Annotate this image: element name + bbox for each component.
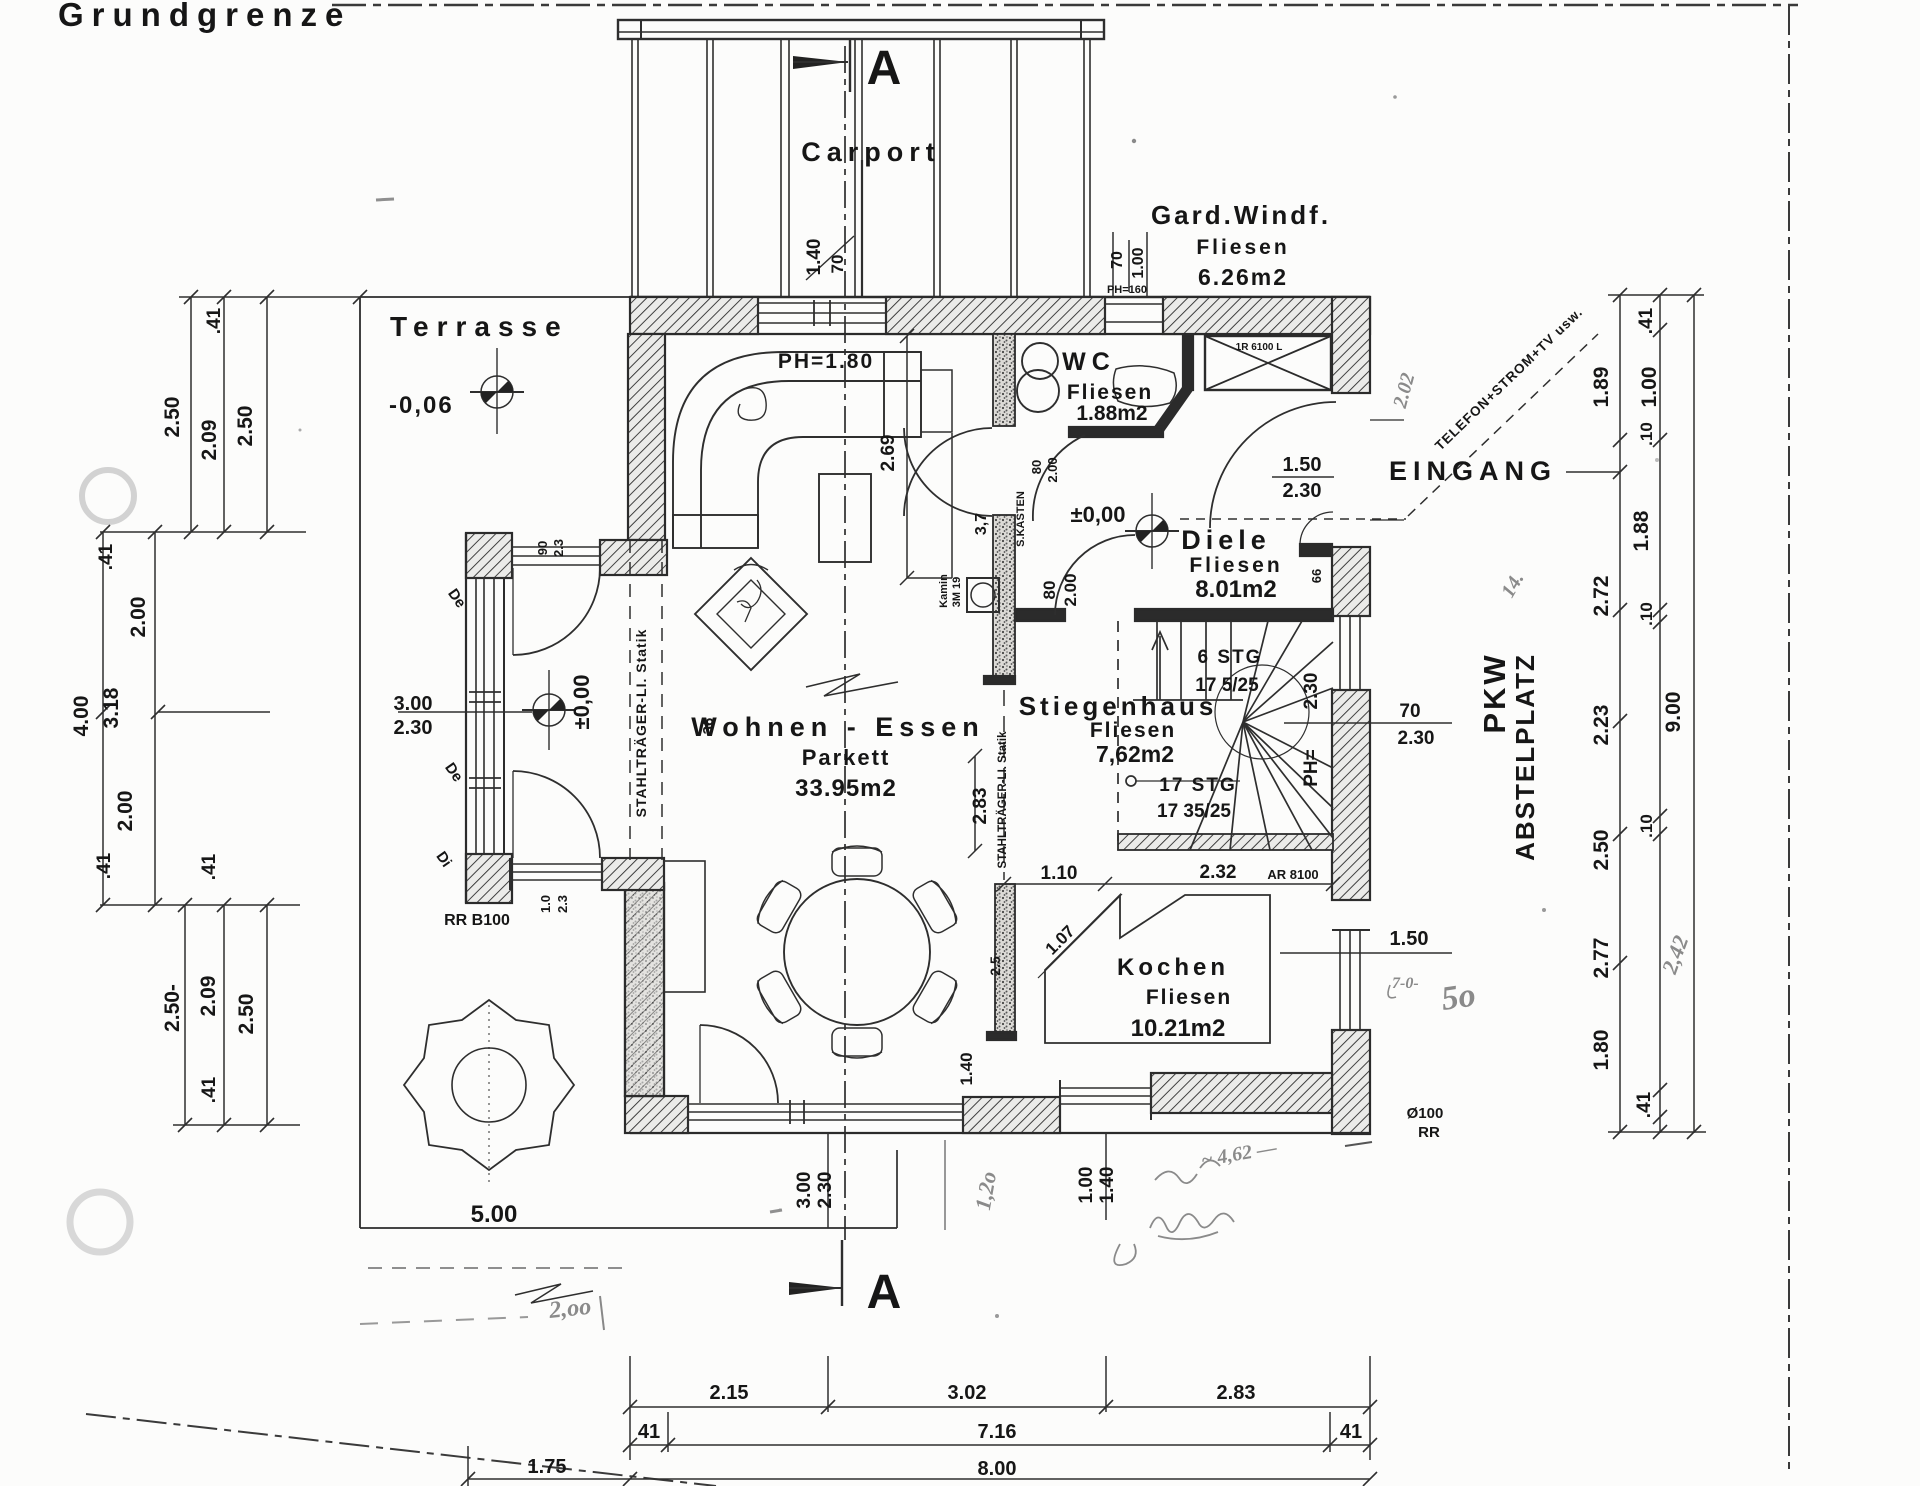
svg-text:17 35/25: 17 35/25 bbox=[1157, 801, 1231, 822]
bottom dim row2 line bbox=[630, 1444, 1370, 1446]
right chain top line bbox=[1608, 294, 1704, 296]
svg-text:1.00: 1.00 bbox=[1076, 1167, 1097, 1204]
left chain bottom line bbox=[173, 1124, 300, 1126]
top wall inner face bbox=[630, 333, 1370, 335]
svg-text:2.50: 2.50 bbox=[161, 397, 184, 438]
svg-text:STAHLTRÄGER-LI. Statik: STAHLTRÄGER-LI. Statik bbox=[633, 629, 649, 818]
level marker terrace bbox=[470, 348, 524, 434]
diele south wall west part bbox=[1015, 609, 1065, 621]
WC chamfer wall bbox=[1157, 388, 1188, 432]
wardrobe closet with X bbox=[1205, 336, 1331, 390]
svg-text:Grundgrenze: Grundgrenze bbox=[58, 0, 351, 33]
svg-text:41: 41 bbox=[1340, 1421, 1362, 1443]
bottom wall mid block bbox=[963, 1097, 1060, 1133]
STAIRS bbox=[1118, 621, 1333, 850]
WC door swing bbox=[1033, 435, 1085, 521]
section arrow top bbox=[793, 56, 848, 69]
bottom dim row1 line bbox=[630, 1406, 1370, 1408]
svg-text:1.00: 1.00 bbox=[1130, 247, 1147, 278]
WC toilet bbox=[1022, 343, 1058, 379]
DIMCHAINS bbox=[96, 232, 1706, 1486]
interior dim 2.69 bbox=[906, 336, 908, 578]
svg-text:3.00: 3.00 bbox=[794, 1172, 815, 1209]
left chain line y905 bbox=[100, 904, 300, 906]
bottom-left dim bracket 3.00/2.30 bbox=[827, 1133, 829, 1228]
svg-text:70: 70 bbox=[1399, 701, 1420, 722]
right chain bottom line bbox=[1608, 1131, 1706, 1133]
corner sofa seat front bbox=[758, 437, 921, 548]
WC south wall bbox=[1069, 427, 1163, 437]
right wall segment kitchen-south bbox=[1332, 1030, 1370, 1134]
level marker bay bbox=[522, 670, 576, 750]
svg-text:1.80: 1.80 bbox=[1590, 1030, 1613, 1071]
bay top terrace door swing bbox=[513, 568, 600, 655]
bay top wall right part bbox=[600, 540, 667, 575]
left chain top line bbox=[179, 296, 360, 298]
carport post 4 bbox=[854, 39, 856, 297]
left wall upper bbox=[628, 334, 665, 540]
terrace outline left bbox=[359, 297, 361, 1228]
svg-text:2.30: 2.30 bbox=[394, 717, 433, 739]
svg-text:Wohnen - Essen: Wohnen - Essen bbox=[691, 712, 985, 742]
octagon centre dotted line bbox=[488, 1005, 490, 1182]
svg-text:±0,00: ±0,00 bbox=[1071, 502, 1126, 527]
svg-text:1.89: 1.89 bbox=[1590, 367, 1613, 408]
svg-text:.10: .10 bbox=[1637, 814, 1656, 838]
svg-text:.41: .41 bbox=[199, 1076, 220, 1103]
diele south wall east part bbox=[1135, 609, 1333, 621]
svg-text:17 STG: 17 STG bbox=[1159, 775, 1236, 796]
svg-text:2.30: 2.30 bbox=[815, 1172, 836, 1209]
sofa cushion curl bbox=[738, 388, 766, 420]
interior wall living/diele lower bbox=[993, 515, 1015, 684]
svg-text:7-0-: 7-0- bbox=[1392, 975, 1419, 992]
svg-text:PH=: PH= bbox=[1301, 749, 1322, 787]
svg-text:2.83: 2.83 bbox=[970, 788, 991, 825]
FURNITURE bbox=[404, 343, 1270, 1303]
ARTIFACTS bbox=[70, 95, 1659, 1318]
svg-text:2.00: 2.00 bbox=[114, 791, 137, 832]
right chain verticals bbox=[1619, 295, 1621, 1133]
kitchen wall end cap bbox=[987, 1032, 1016, 1040]
svg-text:1.10: 1.10 bbox=[1041, 863, 1078, 884]
octagon tree terrace bbox=[404, 1000, 574, 1170]
svg-text:2.00: 2.00 bbox=[127, 597, 150, 638]
svg-text:2.77: 2.77 bbox=[1590, 938, 1613, 979]
carport centre dim strike bbox=[806, 236, 854, 280]
svg-text:1.50: 1.50 bbox=[1283, 454, 1322, 476]
diele east wall stub bbox=[1300, 544, 1332, 556]
octagon inner circle bbox=[452, 1048, 526, 1122]
entrance threshold bbox=[1370, 419, 1404, 421]
svg-text:2.50: 2.50 bbox=[235, 994, 258, 1035]
svg-text:1.00: 1.00 bbox=[1638, 367, 1661, 408]
svg-text:STAHLTRÄGER-LI. Statik: STAHLTRÄGER-LI. Statik bbox=[996, 731, 1009, 869]
svg-text:2.30: 2.30 bbox=[1301, 673, 1322, 710]
chair south-west bbox=[753, 968, 804, 1026]
sofa side table bbox=[921, 370, 952, 432]
WINDOWS bbox=[466, 297, 1370, 1133]
svg-text:Fliesen: Fliesen bbox=[1196, 236, 1289, 259]
stair bottom dim line 1.10 2.32 bbox=[1004, 883, 1333, 885]
carport top beam bbox=[618, 20, 1104, 39]
section line A-A bbox=[844, 46, 846, 1240]
svg-text:2.50-: 2.50- bbox=[161, 984, 184, 1032]
kitchen corner dim line 1.07 bbox=[1038, 894, 1122, 978]
svg-text:A: A bbox=[867, 1266, 902, 1319]
svg-text:WC: WC bbox=[1062, 348, 1116, 376]
ROTTEXTS bbox=[70, 239, 1685, 1209]
carport post 7 bbox=[1083, 39, 1085, 297]
carport post 3 bbox=[780, 39, 782, 297]
left wall lower bbox=[625, 883, 664, 1096]
kitchen bottom wall bbox=[1151, 1073, 1332, 1113]
bay top door leaf lines bbox=[512, 546, 600, 548]
svg-text:Fliesen: Fliesen bbox=[1090, 719, 1176, 742]
svg-text:9.00: 9.00 bbox=[1662, 692, 1685, 733]
stair walk line start circle bbox=[1126, 776, 1136, 786]
svg-text:1.88m2: 1.88m2 bbox=[1076, 402, 1147, 425]
kamin circle bbox=[971, 583, 995, 607]
svg-text:2.83: 2.83 bbox=[1217, 1382, 1256, 1404]
stair winders lower fan bbox=[1243, 722, 1333, 768]
svg-text:2.30: 2.30 bbox=[1283, 480, 1322, 502]
handwritten dim extension bbox=[944, 1140, 946, 1230]
svg-text:±0,00: ±0,00 bbox=[569, 675, 594, 730]
bottom dim extension 1.00/1.40 bbox=[1105, 1133, 1107, 1220]
svg-text:Parkett: Parkett bbox=[802, 745, 891, 770]
diele walkway dashes bbox=[1180, 518, 1406, 520]
svg-text:2.3: 2.3 bbox=[555, 895, 570, 913]
svg-text:-0,06: -0,06 bbox=[389, 392, 454, 419]
property line bottom-left diagonal bbox=[86, 1414, 716, 1486]
entrance dim 1.50/2.30 underline bbox=[1272, 476, 1334, 478]
svg-text:1.0: 1.0 bbox=[538, 895, 553, 913]
right wall segment entrance-north bbox=[1332, 297, 1370, 393]
left chain block C verticals bbox=[184, 905, 186, 1125]
svg-text:70: 70 bbox=[828, 255, 847, 274]
entrance jamb north bbox=[1332, 392, 1370, 394]
kitchen counter outline bbox=[1045, 895, 1270, 1043]
svg-text:PH=160: PH=160 bbox=[1107, 284, 1147, 296]
svg-text:Gard.Windf.: Gard.Windf. bbox=[1151, 200, 1331, 230]
handwriting squiggle near kitchen right bbox=[1388, 985, 1396, 998]
property line right bbox=[1788, 5, 1790, 1470]
property line top (Grundgrenze) bbox=[332, 4, 1798, 6]
svg-text:41: 41 bbox=[638, 1421, 660, 1443]
speckles bbox=[376, 199, 394, 200]
svg-text:PH=1.80: PH=1.80 bbox=[778, 350, 874, 373]
terrace bottom dashed line bbox=[368, 1267, 632, 1269]
svg-text:1.40: 1.40 bbox=[957, 1052, 976, 1085]
terrace outline bottom bbox=[360, 1227, 897, 1229]
interior dim 2.83 bbox=[974, 756, 976, 851]
stiegenhaus window dim 70/2.30 bbox=[1284, 722, 1452, 724]
svg-text:2.09: 2.09 bbox=[198, 420, 221, 461]
gard dim 70/1.00 underline bbox=[1128, 240, 1130, 292]
interior wall kitchen west bbox=[995, 884, 1015, 1040]
svg-text:Ø100: Ø100 bbox=[1407, 1105, 1444, 1122]
svg-text:17 5/25: 17 5/25 bbox=[1195, 675, 1259, 696]
svg-text:90: 90 bbox=[535, 541, 550, 555]
top wall hatched segment left bbox=[630, 297, 758, 334]
left chain block B verticals bbox=[102, 532, 104, 905]
bay window west glazing bbox=[475, 578, 477, 854]
left chain block A verticals bbox=[190, 297, 192, 532]
svg-text:AR 8100: AR 8100 bbox=[1267, 867, 1318, 882]
flash symbol 2 terrace bbox=[515, 1284, 593, 1303]
svg-text:1.75: 1.75 bbox=[528, 1456, 567, 1478]
svg-text:1R 6100 L: 1R 6100 L bbox=[1236, 342, 1283, 353]
svg-text:7.16: 7.16 bbox=[978, 1421, 1017, 1443]
armchair inner seat bbox=[717, 580, 785, 648]
eingang leader line bbox=[1566, 471, 1620, 473]
gard dim extension lines bbox=[1112, 232, 1114, 297]
svg-text:.41: .41 bbox=[94, 852, 115, 879]
svg-text:.41: .41 bbox=[204, 307, 225, 334]
svg-text:2.32: 2.32 bbox=[1200, 862, 1237, 883]
svg-text:Fliesen: Fliesen bbox=[1189, 554, 1282, 577]
svg-text:2.5: 2.5 bbox=[987, 956, 1003, 976]
WALLS bbox=[360, 297, 1404, 1228]
svg-text:2,oo: 2,oo bbox=[547, 1294, 592, 1324]
kitchen window dim 1.50 bbox=[1280, 952, 1452, 954]
svg-text:66: 66 bbox=[1309, 569, 1324, 583]
svg-text:2.23: 2.23 bbox=[1590, 705, 1613, 746]
svg-text:Stiegenhaus: Stiegenhaus bbox=[1019, 691, 1218, 721]
WC sink bbox=[1113, 366, 1176, 407]
entrance jamb south bbox=[1332, 546, 1370, 548]
svg-text:5.00: 5.00 bbox=[471, 1201, 518, 1228]
svg-text:3,7: 3,7 bbox=[973, 513, 990, 535]
punch hole bottom-left bbox=[70, 1192, 130, 1252]
bottom wall outer face bbox=[630, 1132, 1370, 1134]
svg-text:3.18: 3.18 bbox=[100, 687, 123, 728]
bay bottom corner block bbox=[466, 854, 512, 903]
bottom row1 extension verticals bbox=[629, 1356, 631, 1460]
bottom wall corner block left bbox=[625, 1096, 688, 1133]
svg-text:2.50: 2.50 bbox=[234, 406, 257, 447]
svg-text:4.00: 4.00 bbox=[70, 696, 93, 737]
sideboard at west wall bbox=[664, 861, 705, 992]
bay bottom door leaf lines bbox=[510, 863, 602, 865]
wohnen flash symbol bbox=[806, 674, 898, 696]
svg-text:2.72: 2.72 bbox=[1590, 576, 1613, 617]
stair south wall bbox=[1118, 834, 1333, 850]
beam end cap left bbox=[618, 20, 641, 39]
stahltraeger dashed pair bay bbox=[629, 540, 631, 860]
armchair rotated outer bbox=[695, 558, 807, 670]
chair north-east bbox=[910, 877, 961, 935]
svg-text:8.00: 8.00 bbox=[978, 1458, 1017, 1480]
CARPORT bbox=[618, 20, 1104, 1306]
stair treads upper run bbox=[1156, 621, 1158, 700]
svg-text:2.15: 2.15 bbox=[710, 1382, 749, 1404]
left chain mid tick line bbox=[158, 711, 270, 713]
top wall hatched segment mid bbox=[886, 297, 1105, 334]
svg-text:Kamin: Kamin bbox=[938, 574, 950, 608]
bay bottom terrace door swing bbox=[513, 771, 600, 858]
bay window outer frame bbox=[465, 533, 467, 903]
svg-text:2.69: 2.69 bbox=[878, 435, 899, 472]
svg-text:5o: 5o bbox=[1439, 977, 1478, 1018]
carport post 1 bbox=[631, 39, 633, 297]
chair south-east bbox=[910, 968, 961, 1026]
bay dim leader 3.00/2.30 bbox=[398, 711, 532, 713]
coffee table bbox=[819, 474, 871, 562]
svg-text:3M 19: 3M 19 bbox=[951, 577, 963, 608]
svg-text:80: 80 bbox=[1029, 460, 1044, 474]
svg-text:2.00: 2.00 bbox=[1045, 457, 1060, 482]
svg-text:.41: .41 bbox=[96, 543, 117, 570]
svg-text:2.50: 2.50 bbox=[1590, 830, 1613, 871]
carport post 6 bbox=[1010, 39, 1012, 297]
WC east wall bbox=[1183, 335, 1193, 390]
entrance door swing bbox=[1210, 402, 1336, 528]
left chain tick slashes bbox=[96, 290, 367, 1132]
svg-text:.41: .41 bbox=[1634, 1091, 1655, 1118]
dining table round bbox=[784, 879, 930, 1025]
kamin square bbox=[967, 578, 999, 612]
svg-text:2.09: 2.09 bbox=[197, 976, 220, 1017]
svg-text:8.01m2: 8.01m2 bbox=[1195, 576, 1276, 603]
interior wall end cap bbox=[984, 676, 1015, 684]
svg-text:3.00: 3.00 bbox=[394, 693, 433, 715]
svg-text:.41: .41 bbox=[199, 853, 220, 880]
top wall opening gard/windfang bbox=[1105, 303, 1163, 305]
svg-text:36: 36 bbox=[700, 718, 717, 735]
sofa armrest east bbox=[884, 352, 921, 437]
svg-text:PKW: PKW bbox=[1477, 652, 1512, 733]
HANDWRITTEN bbox=[360, 371, 1693, 1330]
section arrow bottom bbox=[789, 1282, 843, 1295]
bottom wall window west bbox=[688, 1103, 963, 1105]
armchair back curve bbox=[734, 565, 768, 571]
right chain tick slashes bbox=[1613, 288, 1701, 1139]
svg-text:Diele: Diele bbox=[1181, 525, 1271, 555]
svg-text:Fliesen: Fliesen bbox=[1067, 381, 1153, 404]
corner sofa outer edge bbox=[673, 352, 921, 548]
level marker diele bbox=[1125, 493, 1179, 569]
svg-text:.41: .41 bbox=[1636, 307, 1657, 334]
DOORS bbox=[513, 402, 1336, 1103]
stair guide circle bbox=[1215, 665, 1309, 759]
stiegenhaus east window bbox=[1339, 616, 1341, 690]
svg-text:ABSTELPLATZ: ABSTELPLATZ bbox=[1510, 653, 1540, 861]
kitchen east window bbox=[1339, 930, 1341, 1030]
bottom dim row3 line bbox=[468, 1478, 1370, 1480]
svg-text:1.88: 1.88 bbox=[1630, 510, 1653, 551]
svg-text:.10: .10 bbox=[1637, 602, 1656, 626]
south terrace door swing bbox=[700, 1025, 778, 1103]
svg-text:6.26m2: 6.26m2 bbox=[1198, 264, 1288, 290]
interior wall living/WC upper bbox=[993, 334, 1015, 426]
bay top corner block bbox=[466, 533, 512, 578]
top wall window living room bbox=[758, 302, 886, 304]
SYMBOLS bbox=[470, 348, 1179, 880]
right wall segment stiegenhaus bbox=[1332, 690, 1370, 900]
svg-text:6 STG: 6 STG bbox=[1198, 647, 1263, 668]
living/diele double door arcs bbox=[904, 428, 992, 516]
svg-text:S.KASTEN: S.KASTEN bbox=[1015, 491, 1027, 547]
svg-text:2.30: 2.30 bbox=[1398, 728, 1435, 749]
svg-text:Carport: Carport bbox=[801, 137, 941, 167]
stiegenhaus door swing bbox=[1055, 535, 1135, 615]
terrace outline top bbox=[360, 296, 630, 298]
svg-text:EINGANG: EINGANG bbox=[1389, 456, 1557, 486]
stair west boundary dashed bbox=[1117, 621, 1119, 850]
svg-text:7,62m2: 7,62m2 bbox=[1096, 741, 1174, 767]
svg-text:1.40: 1.40 bbox=[1097, 1167, 1118, 1204]
top wall hatched segment right bbox=[1163, 297, 1370, 334]
svg-text:33.95m2: 33.95m2 bbox=[795, 775, 897, 802]
punch hole top-left bbox=[82, 470, 134, 522]
svg-text:Fliesen: Fliesen bbox=[1146, 986, 1232, 1009]
svg-text:1.40: 1.40 bbox=[804, 239, 825, 276]
svg-text:10.21m2: 10.21m2 bbox=[1131, 1015, 1226, 1042]
svg-text:1.50: 1.50 bbox=[1390, 928, 1429, 950]
carport post 2 bbox=[706, 39, 708, 297]
svg-text:RR: RR bbox=[1418, 1124, 1440, 1141]
handwriting loops signature bbox=[1150, 1213, 1234, 1239]
chair north bbox=[832, 846, 882, 876]
svg-text:2.3: 2.3 bbox=[551, 539, 566, 557]
stahltraeger dashed kitchen bbox=[1003, 690, 1005, 880]
chair south bbox=[832, 1028, 882, 1058]
svg-text:RR B100: RR B100 bbox=[444, 912, 510, 929]
corner sofa back line bbox=[701, 381, 921, 548]
top wall outer face bbox=[630, 296, 1370, 298]
bay bottom wall right part bbox=[602, 858, 664, 890]
beam end cap right bbox=[1081, 20, 1104, 39]
stair up arrow bbox=[1159, 636, 1161, 700]
right wall segment diele bbox=[1332, 547, 1370, 616]
svg-text:Kochen: Kochen bbox=[1117, 954, 1229, 981]
left chain line y532 bbox=[100, 531, 306, 533]
svg-text:70: 70 bbox=[1109, 251, 1126, 269]
chair north-west bbox=[753, 877, 804, 935]
terrace corner right bbox=[896, 1150, 898, 1228]
svg-text:80: 80 bbox=[1040, 581, 1059, 600]
svg-text:3.02: 3.02 bbox=[948, 1382, 987, 1404]
bottom wall window east bbox=[1060, 1087, 1151, 1089]
svg-text:Terrasse: Terrasse bbox=[390, 311, 569, 342]
telefon diagonal dash line bbox=[1408, 334, 1598, 516]
stair winders upper fan bbox=[1243, 621, 1268, 722]
svg-text:A: A bbox=[867, 42, 902, 95]
bottom ticks bbox=[461, 1400, 1377, 1486]
carport post 5 bbox=[933, 39, 935, 297]
sofa armrest south bbox=[673, 515, 758, 548]
svg-text:.10: .10 bbox=[1637, 422, 1656, 446]
svg-text:2.00: 2.00 bbox=[1061, 573, 1080, 606]
